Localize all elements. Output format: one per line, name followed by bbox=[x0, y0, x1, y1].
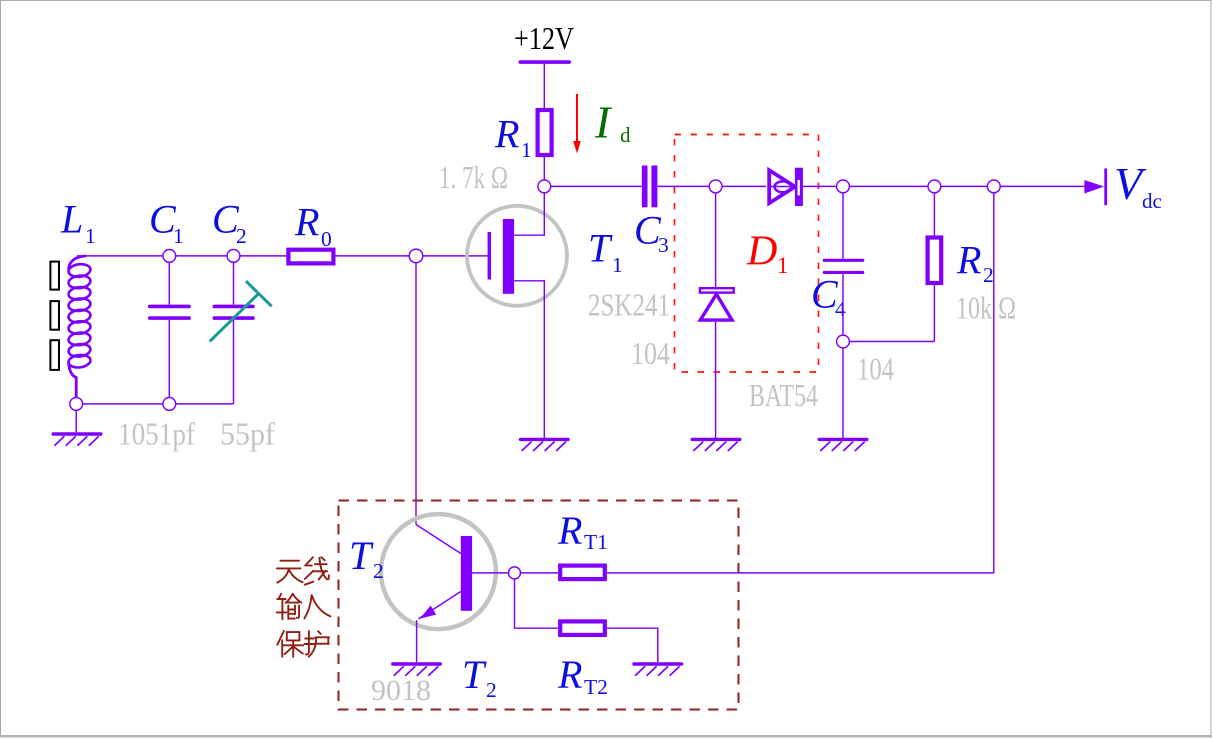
inductor core marks bbox=[50, 262, 59, 370]
svg-text:1: 1 bbox=[521, 138, 532, 162]
wire L1 to ground bbox=[75, 404, 77, 432]
dashed box T2 protection bbox=[339, 501, 739, 710]
wire R1 to drain node bbox=[543, 157, 545, 180]
ground below T1 bbox=[519, 438, 570, 451]
svg-text:T1: T1 bbox=[584, 530, 608, 554]
node C4 bottom bbox=[837, 335, 850, 348]
label Vdc bbox=[1114, 158, 1162, 213]
ground below L1 bbox=[52, 432, 103, 445]
wire input rail bbox=[77, 255, 287, 257]
resistor RT1 bbox=[560, 566, 605, 580]
wire drain rail left bbox=[544, 185, 641, 187]
trimmer arrow C2 bbox=[210, 281, 272, 341]
svg-text:4: 4 bbox=[835, 297, 846, 321]
wire Vdc branch down bbox=[993, 186, 995, 573]
capacitor C4 bbox=[823, 259, 865, 274]
svg-text:R: R bbox=[557, 508, 582, 553]
svg-text:1. 7k Ω: 1. 7k Ω bbox=[439, 159, 508, 195]
label C1 bbox=[149, 197, 184, 249]
node C2 top bbox=[227, 250, 240, 263]
svg-text:104: 104 bbox=[631, 335, 670, 371]
svg-text:+12V: +12V bbox=[514, 20, 574, 56]
svg-text:2: 2 bbox=[236, 224, 247, 248]
svg-text:3: 3 bbox=[658, 233, 669, 257]
wire R2 top bbox=[933, 186, 935, 237]
node Vdc branch bbox=[987, 180, 1000, 193]
diode D1 series bbox=[769, 168, 803, 206]
resistor RT2 bbox=[560, 621, 605, 635]
svg-text:R: R bbox=[294, 200, 319, 245]
svg-text:1: 1 bbox=[173, 224, 184, 248]
label C2 bbox=[212, 197, 247, 249]
node D1-C4 junction bbox=[837, 180, 850, 193]
svg-text:R: R bbox=[956, 238, 981, 283]
capacitor C2 trimmer bbox=[213, 305, 255, 320]
transistor T2 bbox=[381, 514, 508, 662]
svg-text:I: I bbox=[594, 97, 613, 148]
capacitor C3 bbox=[642, 166, 658, 208]
label R0 bbox=[294, 200, 332, 252]
wire bottom node to ground bbox=[842, 342, 844, 439]
wire C1 bottom bbox=[168, 320, 170, 404]
wire bottom rail bbox=[76, 403, 233, 405]
ground below C4 bbox=[818, 438, 869, 451]
resistor R2 bbox=[928, 238, 942, 284]
node T2 base bbox=[509, 567, 521, 579]
svg-text:1051pf: 1051pf bbox=[118, 416, 195, 452]
svg-text:dc: dc bbox=[1142, 189, 1162, 213]
svg-text:d: d bbox=[620, 123, 631, 147]
node R2 top bbox=[928, 180, 941, 193]
svg-text:55pf: 55pf bbox=[220, 416, 275, 452]
node C3-D1 junction bbox=[709, 180, 722, 193]
svg-text:R: R bbox=[494, 112, 519, 157]
wire +12V to R1 bbox=[543, 64, 545, 108]
resistor R0 bbox=[288, 250, 333, 264]
label T1 bbox=[588, 226, 623, 278]
current arrow Id bbox=[573, 94, 581, 154]
label Id bbox=[594, 97, 631, 148]
wire C1 top bbox=[168, 256, 170, 305]
svg-text:1: 1 bbox=[612, 253, 623, 277]
svg-text:104: 104 bbox=[857, 351, 894, 387]
wire base node down bbox=[515, 579, 559, 628]
label RT1 bbox=[557, 508, 608, 554]
wire D1 to C4 node bbox=[803, 185, 843, 187]
diode D1 shunt bbox=[700, 288, 734, 320]
resistor R1 bbox=[538, 110, 552, 155]
node gate bbox=[409, 249, 423, 263]
wire C3 to D1 bbox=[657, 185, 766, 187]
svg-text:T: T bbox=[349, 533, 374, 578]
svg-text:D: D bbox=[746, 229, 777, 275]
wire C2 bottom bbox=[233, 320, 235, 404]
svg-text:2: 2 bbox=[486, 678, 497, 702]
wire base node to RT1 bbox=[521, 572, 559, 574]
wire drain rail right of D1 bbox=[843, 185, 1085, 187]
dashed box D1 bbox=[675, 135, 819, 373]
inductor L1 bbox=[68, 256, 91, 398]
svg-text:1: 1 bbox=[777, 253, 789, 278]
transistor T1 bbox=[467, 193, 567, 438]
svg-text:0: 0 bbox=[321, 227, 332, 251]
svg-text:T: T bbox=[462, 652, 487, 697]
wire node to shunt diode bbox=[715, 186, 717, 287]
wire node to C4 bbox=[842, 186, 844, 258]
svg-text:2: 2 bbox=[373, 559, 384, 583]
svg-text:9018: 9018 bbox=[371, 674, 431, 707]
label antenna protection (Chinese) bbox=[277, 557, 331, 657]
node drain bbox=[538, 180, 551, 193]
label RT2 bbox=[557, 652, 608, 699]
label R2 bbox=[956, 238, 994, 288]
node C1 top bbox=[163, 250, 176, 263]
wire C4 node to R2 bottom bbox=[843, 341, 934, 343]
power +12V bar bbox=[519, 60, 572, 64]
svg-text:T2: T2 bbox=[584, 675, 608, 699]
svg-text:10k Ω: 10k Ω bbox=[956, 290, 1016, 326]
svg-text:L: L bbox=[60, 197, 83, 242]
label D1 bbox=[746, 229, 789, 279]
wire RT2 to ground bbox=[607, 628, 658, 662]
wire shunt diode to ground bbox=[715, 322, 717, 438]
svg-text:2SK241: 2SK241 bbox=[588, 287, 670, 323]
wire RT1 to Vdc branch bbox=[607, 572, 994, 574]
wire C2 top bbox=[233, 256, 235, 305]
svg-text:T: T bbox=[588, 226, 613, 271]
wire R0 to gate bbox=[335, 255, 487, 257]
svg-text:1: 1 bbox=[85, 224, 96, 248]
label R1 bbox=[494, 112, 532, 163]
svg-text:R: R bbox=[557, 652, 582, 697]
wire C4 to bottom node bbox=[842, 274, 844, 342]
wire R2 bottom bbox=[933, 283, 935, 342]
ground below T2 bbox=[391, 662, 442, 675]
svg-text:BAT54: BAT54 bbox=[749, 377, 818, 413]
capacitor C1 bbox=[148, 305, 191, 320]
label C3 bbox=[634, 208, 669, 258]
label T2 bbox=[349, 533, 384, 583]
label L1 bbox=[60, 197, 96, 249]
label T2 type row bbox=[462, 652, 497, 702]
Vdc arrow bbox=[1084, 168, 1107, 205]
label C4 bbox=[811, 272, 846, 322]
ground below RT2 bbox=[632, 662, 683, 675]
ground below D1 bbox=[691, 438, 742, 451]
node L1 bottom bbox=[70, 398, 83, 411]
wire gate node down to T2 bbox=[415, 256, 417, 525]
svg-text:2: 2 bbox=[983, 263, 994, 287]
node C1 bottom bbox=[163, 398, 176, 411]
